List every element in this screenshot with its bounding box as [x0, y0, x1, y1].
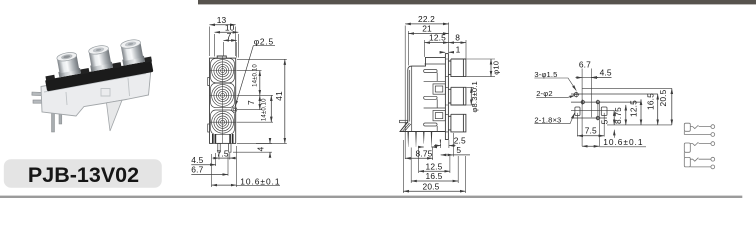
- front view body: [210, 58, 236, 143]
- dim 14 second: [237, 121, 274, 123]
- dim 16.5: [411, 148, 458, 184]
- dim 4.5: [215, 153, 217, 166]
- jack symbol J3 line: [690, 166, 711, 168]
- svg-text:16.5: 16.5: [426, 171, 443, 181]
- dim 6.7: [227, 154, 229, 176]
- svg-text:16.5: 16.5: [645, 93, 655, 110]
- dim 10.6: [212, 146, 237, 187]
- bottom view rail 3: [571, 101, 641, 103]
- side view dim texts: [416, 14, 501, 192]
- svg-text:12.5: 12.5: [628, 100, 638, 117]
- jack symbol J2 lever: [690, 142, 711, 146]
- side view small arrows under pins: [420, 146, 436, 148]
- front view top tab: [217, 56, 226, 58]
- photo: white plastic body: [41, 67, 151, 116]
- page bottom rule: [0, 196, 742, 198]
- front view jack 2 circles: [210, 84, 236, 106]
- dim 8.75: [432, 148, 434, 161]
- dim 7 right: [237, 95, 274, 109]
- jack symbol J3 bracket: [684, 157, 690, 167]
- svg-text:14±0.10: 14±0.10: [253, 64, 259, 87]
- dim 7 top: [224, 42, 237, 58]
- svg-text:7: 7: [227, 31, 232, 41]
- svg-text:41: 41: [274, 91, 284, 101]
- dim 8: [465, 40, 467, 59]
- dim 12.5 vertical: [640, 99, 642, 125]
- dim 4: [233, 143, 272, 152]
- dim 1: [441, 51, 446, 53]
- photo: body shading details: [44, 74, 146, 106]
- bottom view rail 5: [571, 117, 607, 119]
- dim 20.5 vertical: [671, 88, 673, 125]
- svg-text:4.5: 4.5: [600, 68, 612, 78]
- dim 6.7 bottom view: [576, 77, 583, 79]
- bottom view pad 2: [601, 107, 607, 116]
- label 2-phi2 leader: [536, 95, 575, 97]
- svg-text:20.5: 20.5: [423, 181, 440, 191]
- dim 7.5 bottom: [219, 153, 230, 160]
- dim 5 side: [452, 133, 454, 157]
- svg-text:1: 1: [456, 45, 461, 55]
- jack symbol J1 lever: [690, 125, 711, 129]
- svg-text:8.75: 8.75: [613, 107, 623, 124]
- side view front plate: [445, 54, 448, 140]
- front view pin 2 below body: [229, 143, 231, 152]
- photo: RCA cylinder 3: [119, 38, 145, 65]
- front view peg 2: [229, 134, 233, 143]
- svg-text:3-φ1.5: 3-φ1.5: [534, 70, 557, 79]
- svg-text:2-1.8×3: 2-1.8×3: [534, 116, 561, 125]
- front view pin 1 below body: [218, 143, 220, 152]
- side view spring bar 2: [424, 96, 438, 99]
- dim 10: [215, 34, 239, 58]
- jack symbol J3 lever: [690, 158, 711, 162]
- svg-text:5: 5: [599, 119, 609, 124]
- label 2-1.8x3 leader: [534, 113, 574, 124]
- svg-text:6.7: 6.7: [191, 165, 203, 175]
- front view jack 3 circles: [210, 111, 236, 133]
- dim phi8.3: [467, 87, 474, 105]
- svg-text:2-φ2: 2-φ2: [536, 89, 553, 98]
- photo: RCA cylinder 2: [87, 44, 113, 71]
- photo: left pins: [32, 92, 54, 103]
- dim 2.5 side: [441, 140, 449, 148]
- side view contact box 2: [433, 111, 445, 121]
- side view inner wall: [410, 66, 412, 131]
- svg-text:φ10: φ10: [492, 61, 501, 75]
- product label plate: [4, 159, 162, 188]
- svg-text:7.5: 7.5: [585, 126, 597, 136]
- front view jack housing 2: [211, 83, 235, 107]
- svg-text:6.7: 6.7: [579, 59, 591, 69]
- side view barrel 3: [448, 114, 466, 132]
- photo: black mounting bar: [45, 61, 153, 92]
- svg-text:4: 4: [256, 146, 266, 151]
- dim 12.5 bottom: [419, 148, 450, 174]
- dim 12.5 top: [424, 40, 426, 57]
- dim 8.75 vertical: [625, 105, 627, 125]
- svg-text:PJB-13V02: PJB-13V02: [28, 163, 139, 187]
- front view centerline vertical: [222, 57, 224, 144]
- jack symbol J1 line: [684, 134, 711, 136]
- dim 4.5 bottom view: [591, 76, 611, 78]
- label 3-phi1.5 leader: [534, 78, 576, 91]
- svg-text:7: 7: [246, 100, 256, 105]
- photo: RCA cylinder 1: [55, 51, 81, 77]
- side view contact box 1: [433, 84, 445, 94]
- photo: foot: [107, 100, 123, 131]
- side view hatch foot: [401, 122, 411, 131]
- bottom view texts: [534, 59, 668, 147]
- page top bar: [198, 0, 756, 4]
- side view left pin stub: [400, 120, 408, 122]
- svg-text:φ2.5: φ2.5: [254, 36, 274, 46]
- bottom view rail 2: [571, 93, 658, 95]
- bottom view bottom ref: [607, 124, 672, 126]
- svg-text:7.5: 7.5: [217, 148, 229, 158]
- dim 41: [237, 59, 287, 143]
- front view jack housing 1: [211, 58, 235, 82]
- svg-text:14±0.10: 14±0.10: [261, 98, 267, 121]
- front view dim texts: [191, 15, 284, 186]
- small up arrow: [613, 130, 615, 138]
- front view left notches: [208, 78, 210, 133]
- side view body outline: [400, 57, 445, 131]
- side view spring bar 1: [424, 70, 438, 73]
- bottom view verticals: [577, 69, 604, 147]
- front view small hole phi2.5: [232, 107, 237, 112]
- dim 16.5 vertical: [657, 94, 659, 125]
- dim 7.5 bottom view: [577, 135, 604, 137]
- svg-text:20.5: 20.5: [658, 89, 668, 106]
- front view peg 1: [212, 134, 216, 143]
- photo: bar divider tabs: [45, 75, 55, 81]
- side view top inner line: [425, 63, 446, 65]
- side view barrel 2: [448, 87, 466, 105]
- side view dimensions: [403, 23, 495, 194]
- svg-text:8.75: 8.75: [416, 148, 433, 158]
- svg-text:10.6±0.1: 10.6±0.1: [603, 137, 643, 147]
- bottom view rail 4: [571, 109, 614, 111]
- jack symbol J1 bracket: [684, 123, 690, 131]
- bottom view hole D phi1.5: [595, 116, 600, 121]
- bottom view rail top ref: [582, 87, 672, 89]
- photo: vertical pins: [52, 107, 55, 132]
- front view dimensions: [191, 25, 286, 187]
- dim 21: [407, 31, 409, 66]
- bottom view hole B phi1.5: [580, 100, 585, 105]
- dim 13: [210, 27, 236, 57]
- front view jack housing 3: [211, 110, 235, 134]
- bottom view pad 1: [575, 107, 580, 116]
- jack symbol J2 bracket: [684, 143, 690, 152]
- bottom view hole C phi1.5: [595, 100, 600, 105]
- svg-text:22.2: 22.2: [418, 14, 435, 24]
- side view spring bar 3: [424, 123, 438, 126]
- svg-text:12.5: 12.5: [429, 33, 446, 43]
- front view jack 1 circles: [210, 60, 236, 82]
- svg-text:φ8.3±0.1: φ8.3±0.1: [470, 81, 479, 112]
- svg-text:8: 8: [455, 33, 460, 43]
- dim phi10: [467, 59, 496, 77]
- svg-text:12.5: 12.5: [426, 161, 443, 171]
- side view pins: [408, 132, 442, 148]
- dim 14 first: [237, 70, 262, 72]
- side view barrel 1: [448, 59, 466, 77]
- dim 5 vertical: [613, 110, 615, 125]
- dim 20.5: [403, 140, 465, 193]
- dim 10.6 bottom view: [582, 145, 599, 147]
- bottom view column line: [597, 102, 599, 118]
- leader phi2.5: [235, 46, 275, 106]
- dim 22.2: [405, 23, 448, 160]
- bottom view hole A phi2: [573, 92, 579, 98]
- svg-text:10.6±0.1: 10.6±0.1: [240, 176, 280, 186]
- svg-text:4.5: 4.5: [191, 155, 203, 165]
- svg-text:5: 5: [456, 145, 461, 155]
